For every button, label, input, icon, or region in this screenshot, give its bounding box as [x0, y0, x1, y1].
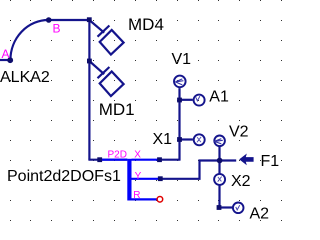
- pin R stub: [132, 198, 157, 200]
- wire arc A to B: [10, 20, 48, 60]
- junction dot A1 tee: [177, 98, 182, 103]
- svg-text:A2: A2: [250, 205, 270, 222]
- junction dot B: [46, 17, 52, 23]
- wire X pin to vertical line 2: [161, 159, 180, 161]
- input arrow F1: [239, 154, 253, 166]
- junction dot X1 tee: [177, 137, 182, 142]
- svg-text:R: R: [133, 190, 140, 201]
- sensor X1 circle: [194, 134, 205, 145]
- sensor X2 circle: [214, 174, 225, 185]
- svg-text:V2: V2: [229, 124, 249, 141]
- pin Y stub: [132, 178, 161, 180]
- wire vertical line 2 (V1/A1/X1 chain): [178, 88, 180, 161]
- svg-text:Point2d2DOFs1: Point2d2DOFs1: [7, 168, 121, 185]
- wire vertical line 3 junction to X2: [218, 161, 220, 174]
- sensor A1 circle: [194, 95, 205, 106]
- sensor A2 arrow: [236, 205, 240, 210]
- svg-text:A: A: [2, 47, 10, 61]
- transducer MD4 stub: [89, 20, 104, 33]
- junction dot top corner: [87, 17, 92, 22]
- junction dot Y/F1/V2: [217, 158, 223, 164]
- pin X stub: [132, 159, 160, 161]
- svg-text:ALKA2: ALKA2: [0, 69, 50, 86]
- wire X2 to corner: [218, 185, 220, 207]
- sensor X2 mark: [218, 177, 222, 182]
- junction dot A: [7, 57, 13, 63]
- sensor V1 circle: [174, 76, 186, 88]
- wire X1 horizontal: [180, 138, 193, 140]
- pin square P2D: [97, 157, 102, 162]
- sensor A2 circle: [233, 203, 244, 214]
- port R red circle: [157, 197, 163, 203]
- sensor A1 arrow: [196, 96, 200, 101]
- transducer MD1 stub: [89, 61, 104, 74]
- transducer MD4 diamond: [100, 30, 124, 55]
- wire A1 horizontal: [180, 99, 193, 101]
- sensor V1 arrow: [175, 79, 183, 85]
- wire V2 stub down to junction: [218, 147, 220, 161]
- wire A stub: [0, 59, 11, 61]
- pin square Y: [158, 176, 163, 181]
- wire top horizontal B to corner: [49, 19, 91, 21]
- svg-text:Y: Y: [135, 171, 142, 182]
- pin square X: [157, 157, 162, 162]
- wire corner to A2: [219, 206, 232, 208]
- svg-text:F1: F1: [261, 153, 280, 170]
- svg-text:X: X: [134, 149, 141, 160]
- wire Y pin path to junction: [160, 161, 236, 179]
- wire vertical line 1: [88, 20, 90, 160]
- junction dot A2 corner: [217, 205, 222, 210]
- svg-text:MD1: MD1: [99, 100, 135, 119]
- transducer MD1 crossbar: [98, 67, 110, 78]
- sensor X1 mark: [197, 137, 201, 142]
- svg-text:A1: A1: [209, 89, 229, 106]
- grid dots: [10, 1, 282, 221]
- svg-text:X1: X1: [153, 131, 173, 148]
- block Point2d2DOFs1 bar: [127, 159, 131, 201]
- svg-text:X2: X2: [231, 173, 251, 190]
- junction dot MD1 tee: [87, 59, 92, 64]
- svg-text:V1: V1: [172, 51, 192, 68]
- svg-text:MD4: MD4: [128, 15, 164, 34]
- sensor V2 arrow: [214, 139, 223, 144]
- svg-text:B: B: [53, 22, 61, 36]
- pin P2D stub: [100, 159, 128, 161]
- sensor V2 circle: [214, 136, 225, 147]
- transducer MD4 crossbar: [98, 26, 110, 37]
- transducer MD1 diamond: [100, 72, 124, 97]
- wire P2D horizontal: [88, 159, 127, 161]
- svg-text:P2D: P2D: [108, 149, 127, 160]
